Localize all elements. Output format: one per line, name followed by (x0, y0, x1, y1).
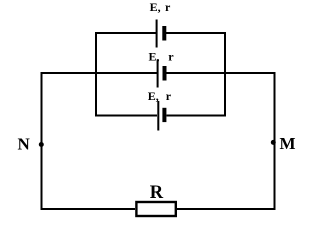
svg-text:r: r (168, 50, 174, 64)
wire bottom right segment (from resistor) (177, 208, 276, 210)
svg-text:r: r (166, 89, 172, 103)
cell B1 top (E, r) (156, 20, 167, 48)
svg-text:M: M (280, 134, 296, 153)
wire box right vertical (224, 32, 226, 117)
svg-text:E,: E, (148, 89, 159, 103)
svg-text:E,: E, (150, 0, 161, 14)
cell B3 bottom (E, r) (157, 101, 166, 131)
cell B2 middle (E, r) (157, 60, 167, 88)
wire bottom left segment (to resistor) (41, 208, 135, 210)
wire box bottom left segment (95, 115, 157, 117)
wire box top left segment (95, 32, 157, 34)
wire main horizontal left segment (N to middle cell) (41, 72, 157, 74)
resistor R (136, 202, 175, 216)
wire outer left vertical (through node N) (41, 72, 43, 210)
wire main horizontal right segment (middle cell to M) (167, 72, 275, 74)
wire outer right vertical (through node M) (274, 72, 276, 210)
wire box left vertical (95, 32, 97, 117)
node N (39, 142, 44, 147)
node M (271, 140, 276, 145)
svg-text:N: N (18, 135, 31, 154)
svg-text:r: r (165, 0, 171, 14)
wire box bottom right segment (167, 115, 227, 117)
svg-text:E,: E, (149, 50, 160, 64)
wire box top right segment (166, 32, 226, 34)
svg-text:R: R (150, 183, 164, 203)
